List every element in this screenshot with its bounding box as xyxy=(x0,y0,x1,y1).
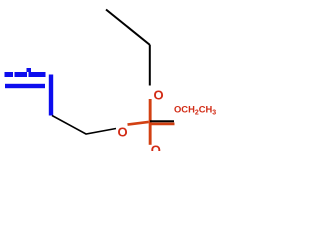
wire black zigzag bond to O left xyxy=(52,116,116,135)
wire orange vertical bond xyxy=(149,99,152,145)
wire blue vertical bond xyxy=(49,75,53,116)
wire orange left bond xyxy=(128,122,149,125)
svg-text:O: O xyxy=(153,88,163,103)
node N1 (blue double-bond upper bar) xyxy=(5,68,46,77)
svg-text:O: O xyxy=(151,143,161,151)
wire orange right bond (lower line) xyxy=(150,123,175,126)
wire black ethyl diagonal bond xyxy=(106,10,150,46)
svg-text:O: O xyxy=(117,125,127,140)
wire black right bond (upper line) xyxy=(150,120,174,122)
node N2 (blue double-bond lower bar) xyxy=(5,84,45,88)
wire black vertical bond to O top xyxy=(149,45,151,86)
